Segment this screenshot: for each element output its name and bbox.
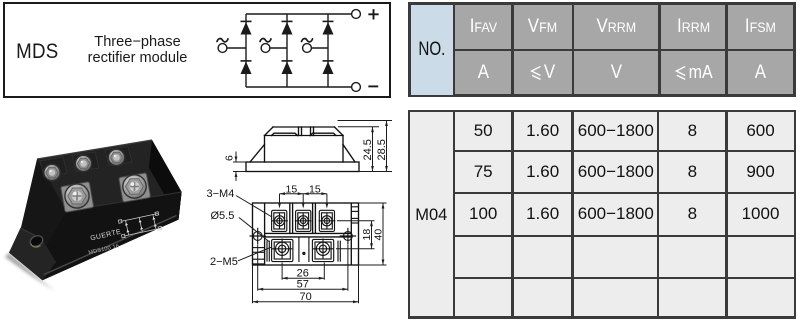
terminal AC2	[261, 44, 270, 53]
wire leg 3	[327, 14, 329, 87]
diode D5 lower leg2	[282, 62, 293, 75]
svg-text:6: 6	[224, 155, 236, 161]
svg-text:24.5: 24.5	[362, 139, 374, 160]
MDS label	[7, 39, 67, 64]
photo of rectifier module	[0, 120, 210, 326]
flange face with mounting hole	[9, 228, 56, 280]
module right end face	[149, 140, 182, 220]
raised terminal towers (back row)	[40, 147, 132, 178]
svg-text:28.5: 28.5	[376, 139, 388, 160]
wire AC input 3	[312, 47, 329, 49]
terminal M4 pad 2	[295, 210, 312, 231]
wire AC input 2	[270, 47, 287, 49]
wire top rail	[246, 13, 352, 15]
label ~ phase3	[302, 39, 313, 42]
label -	[369, 85, 377, 87]
top edge highlight	[37, 140, 152, 159]
diode D1 upper leg1	[241, 22, 252, 35]
mounting hole left	[250, 228, 266, 244]
terminal AC3	[303, 44, 312, 53]
side view top slots	[298, 127, 300, 136]
dimension 18	[336, 221, 375, 249]
terminal AC1	[218, 44, 227, 53]
dimension 57	[258, 245, 348, 291]
title text	[60, 34, 215, 66]
spec table body	[408, 110, 796, 319]
wire AC input 1	[227, 47, 246, 49]
side slots bottom section	[266, 241, 268, 262]
terminal M5 pad left	[272, 239, 293, 262]
terminal M4 pad 1	[271, 210, 288, 231]
terminal +	[352, 10, 361, 19]
base plate edge	[44, 216, 177, 275]
wire bottom rail	[246, 86, 352, 88]
module front face	[42, 192, 181, 280]
wire leg 2	[286, 14, 288, 87]
dimension 6	[233, 152, 246, 182]
screw terminal small 1	[43, 164, 61, 182]
terminal M5 pad right	[312, 239, 333, 262]
dimension 70	[253, 265, 359, 303]
label ~ phase2	[260, 39, 271, 42]
clamp plate under big screw 2	[119, 173, 151, 202]
module silhouette	[9, 140, 182, 280]
shadow under module	[5, 253, 55, 291]
dimension 28.5	[338, 121, 393, 172]
dimension 15 15	[280, 194, 327, 207]
horizontal section walls	[265, 232, 352, 234]
dimension drawings	[200, 100, 404, 326]
svg-text:57: 57	[297, 278, 309, 290]
screw terminal small 3	[108, 149, 126, 167]
side view outline	[246, 162, 359, 172]
circuit schematic: three-phase bridge rectifier	[200, 0, 395, 100]
title box	[3, 2, 391, 98]
label ~ phase1	[217, 39, 228, 42]
wire leg 1	[245, 14, 247, 87]
svg-text:Ø5.5: Ø5.5	[211, 210, 235, 222]
diode D3 upper leg3	[323, 22, 334, 35]
label +	[369, 10, 377, 18]
svg-text:18: 18	[361, 229, 373, 241]
edge tabs	[253, 247, 265, 249]
svg-text:70: 70	[300, 291, 312, 303]
svg-text:15: 15	[309, 183, 321, 195]
spec table header	[408, 2, 796, 97]
diode D6 lower leg3	[323, 62, 334, 75]
mounting hole right	[340, 228, 356, 244]
dimension 26	[282, 263, 324, 280]
center strip between M5 pads	[253, 207, 359, 264]
clamp plate under big screw 1	[61, 182, 94, 213]
svg-text:3−M4: 3−M4	[207, 188, 235, 200]
divider strips between M4 terminals	[289, 203, 291, 233]
svg-text:15: 15	[286, 183, 298, 195]
side view support slopes	[250, 145, 265, 163]
GUERTE label	[85, 229, 125, 257]
printed bridge schematic on case	[118, 212, 162, 238]
terminal -	[352, 83, 361, 92]
module top face	[37, 140, 182, 211]
screw terminal small 2	[75, 155, 93, 173]
side view terminal recesses	[272, 133, 298, 135]
dimension 24.5	[338, 127, 379, 172]
terminal M4 pad 3	[319, 210, 336, 231]
diode D2 upper leg2	[282, 22, 293, 35]
svg-text:40: 40	[373, 229, 385, 241]
svg-text:2−M5: 2−M5	[210, 256, 238, 268]
diode D4 lower leg1	[241, 62, 252, 75]
screw terminal big 1	[64, 183, 90, 209]
dimension 40	[359, 203, 387, 265]
top view outline	[253, 203, 359, 265]
screw terminal big 2	[122, 174, 147, 199]
